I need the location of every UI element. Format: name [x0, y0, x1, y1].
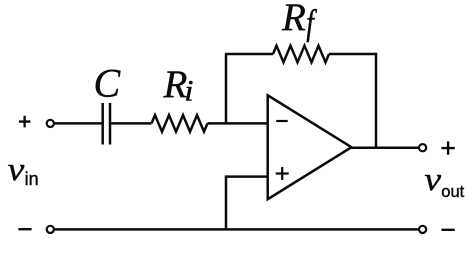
wire feedback right vertical: [375, 53, 378, 148]
svg-text:v: v: [8, 150, 25, 187]
terminal node vout+: [419, 144, 426, 151]
wire feedback top right: [329, 53, 377, 56]
wire capacitor to resistor: [111, 122, 151, 125]
svg-text:in: in: [25, 169, 39, 189]
wire non-inverting input horizontal: [225, 175, 268, 178]
svg-text:i: i: [184, 74, 193, 107]
op-amp non-inverting plus sign: [276, 167, 289, 180]
wire feedback top left: [225, 53, 273, 56]
plus sign left input: [19, 116, 31, 128]
resistor Ri zigzag: [152, 115, 208, 132]
capacitor C1 left plate: [101, 103, 104, 145]
resistor Rf zigzag: [273, 46, 329, 63]
wire feedback left vertical: [225, 54, 228, 125]
svg-text:v: v: [424, 160, 441, 197]
svg-text:C: C: [94, 61, 122, 106]
terminal node vout-: [419, 226, 426, 233]
minus sign left input: [18, 228, 31, 230]
wire resistor to op-amp inverting input: [208, 122, 268, 125]
wire input top: [55, 122, 102, 125]
plus sign output: [441, 141, 454, 154]
wire non-inverting vertical: [225, 176, 228, 230]
svg-text:out: out: [441, 183, 464, 201]
svg-text:R: R: [281, 0, 306, 39]
terminal node vin-: [47, 226, 54, 233]
svg-text:f: f: [306, 3, 317, 42]
op-amp inverting minus sign: [276, 120, 288, 122]
capacitor C1 right plate: [109, 103, 112, 145]
wire output: [352, 146, 419, 149]
wire bottom rail: [55, 228, 419, 231]
op-amp U1 triangle: [268, 95, 352, 199]
terminal node vin+: [47, 120, 54, 127]
minus sign output: [441, 229, 454, 231]
